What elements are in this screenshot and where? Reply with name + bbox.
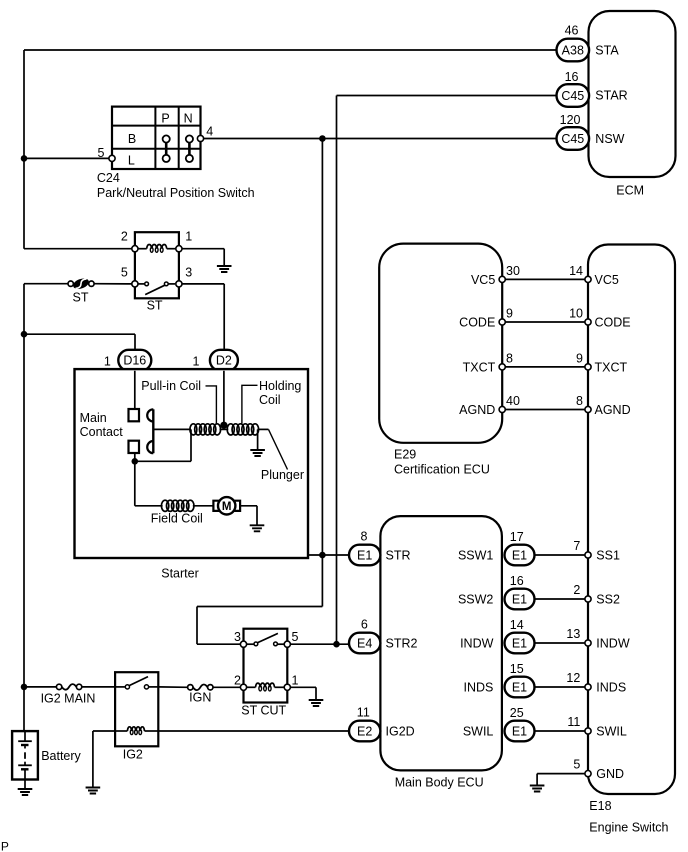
svg-text:D2: D2 xyxy=(216,354,232,368)
svg-text:AGND: AGND xyxy=(459,403,495,417)
label Park/Neutral Position Switch xyxy=(97,186,255,200)
pin 8 AGND (engine switch side) xyxy=(576,394,631,417)
pin 1 of ST relay xyxy=(176,229,193,251)
ground after holding coil xyxy=(250,429,265,456)
pin 4 of C24 xyxy=(197,125,213,142)
relay ST CUT box xyxy=(241,629,287,718)
svg-text:L: L xyxy=(128,154,135,168)
wire ST relay pin 1 to ground xyxy=(182,248,224,250)
wire STA net (battery bus to ECM A38) xyxy=(24,49,557,51)
relay IG2 box xyxy=(115,672,158,762)
svg-text:E1: E1 xyxy=(357,548,372,562)
svg-text:Engine Switch: Engine Switch xyxy=(589,820,668,834)
pin 7 SS1 (engine switch side) xyxy=(573,539,620,563)
svg-text:1: 1 xyxy=(185,229,192,243)
svg-text:NSW: NSW xyxy=(595,132,624,146)
svg-text:16: 16 xyxy=(510,574,524,588)
svg-text:Field Coil: Field Coil xyxy=(151,512,203,526)
plunger leader line xyxy=(269,429,288,469)
wire STAR branch vertical (STAR to STR2) xyxy=(336,96,338,645)
svg-text:A38: A38 xyxy=(562,43,584,57)
junction bus / IG2 MAIN row xyxy=(21,684,28,691)
pin 6 E4 STR2 (main body ECU) xyxy=(349,618,418,654)
pin 16 E1 SSW2 (main body ECU side) xyxy=(458,574,535,609)
main body ECU box xyxy=(380,516,502,790)
svg-text:E18: E18 xyxy=(589,799,611,813)
connector D16 pin 1 xyxy=(104,350,151,371)
svg-text:2: 2 xyxy=(573,583,580,597)
label Main Contact xyxy=(80,411,124,439)
svg-text:11: 11 xyxy=(357,706,370,720)
svg-text:STR2: STR2 xyxy=(386,636,418,650)
wire D16 into starter to main contact xyxy=(134,371,136,409)
relay ST CUT coil (pins 2-1) xyxy=(247,683,285,691)
svg-text:ST: ST xyxy=(73,290,89,304)
svg-text:9: 9 xyxy=(576,351,583,365)
wire bus to IG2 MAIN fuse xyxy=(24,686,56,688)
svg-text:120: 120 xyxy=(560,113,581,127)
pin C45 NSW (ECM) xyxy=(557,113,625,150)
svg-text:11: 11 xyxy=(567,715,580,729)
svg-text:INDW: INDW xyxy=(596,636,630,650)
svg-text:5: 5 xyxy=(573,758,580,772)
wire to field coil xyxy=(135,461,163,506)
svg-text:3: 3 xyxy=(185,266,192,280)
page letter P xyxy=(1,840,9,852)
pin 5 GND (engine switch) xyxy=(573,758,624,782)
pin 5 of ST CUT xyxy=(284,630,298,647)
svg-text:Starter: Starter xyxy=(161,566,199,580)
wire bus to ST relay pin 2 xyxy=(24,248,132,250)
pin 9 CODE (E29 side) xyxy=(459,306,513,329)
svg-text:ST CUT: ST CUT xyxy=(241,703,286,717)
svg-text:Pull-in Coil: Pull-in Coil xyxy=(141,379,201,393)
svg-text:ECM: ECM xyxy=(616,183,644,197)
svg-text:2: 2 xyxy=(121,229,128,243)
pin 3 of ST CUT xyxy=(234,630,247,647)
motor M starter xyxy=(213,497,240,514)
pin 11 SWIL (engine switch side) xyxy=(567,715,627,739)
svg-text:SWIL: SWIL xyxy=(596,724,627,738)
field coil xyxy=(151,500,203,525)
fuse ST (fusible link) xyxy=(68,276,94,304)
wire INDW to INDW (main body ECU to engine switch) xyxy=(535,642,586,644)
wire IGN fuse to ST CUT pin 2 xyxy=(213,686,240,688)
svg-text:14: 14 xyxy=(510,618,524,632)
wire ST relay pin 3 to D2 xyxy=(182,284,224,350)
pin 10 CODE (engine switch side) xyxy=(569,306,631,329)
svg-text:Coil: Coil xyxy=(259,393,281,407)
wire IG2 coil to ground xyxy=(93,730,115,732)
pin 14 E1 INDW (main body ECU side) xyxy=(460,618,534,653)
junction bus to D16 branch xyxy=(21,331,28,338)
wire NSW net horizontal xyxy=(203,138,557,140)
pin 15 E1 INDS (main body ECU side) xyxy=(464,662,535,697)
svg-text:5: 5 xyxy=(121,266,128,280)
wire pin5 to battery bus xyxy=(24,157,109,159)
svg-text:6: 6 xyxy=(361,618,368,632)
wire STR branch to ST CUT pin 3 xyxy=(197,607,322,645)
svg-text:Holding: Holding xyxy=(259,379,301,393)
svg-text:P: P xyxy=(161,111,169,125)
svg-text:STAR: STAR xyxy=(595,89,627,103)
svg-text:40: 40 xyxy=(506,394,520,408)
svg-text:VC5: VC5 xyxy=(471,273,495,287)
pin 40 AGND (E29 side) xyxy=(459,394,520,417)
wire TXCT net (E29 to engine switch) xyxy=(502,366,588,368)
pin A38 STA (ECM) xyxy=(557,24,620,62)
ground at ST relay pin 1 xyxy=(217,249,232,272)
wire D2 into starter to coil junction xyxy=(223,371,225,426)
svg-text:E1: E1 xyxy=(512,724,527,738)
pin C45 STAR (ECM) xyxy=(557,70,628,107)
svg-text:SSW2: SSW2 xyxy=(458,592,493,606)
wire CODE net (E29 to engine switch) xyxy=(502,321,588,323)
wire main contact to pull-in coil xyxy=(153,428,191,430)
wire VC5 net (E29 to engine switch) xyxy=(502,278,588,280)
svg-text:8: 8 xyxy=(576,394,583,408)
svg-text:46: 46 xyxy=(565,24,579,38)
svg-text:D16: D16 xyxy=(123,354,146,368)
wire starter to E1 STR xyxy=(308,554,349,556)
ground at ST CUT pin 1 xyxy=(309,687,324,706)
wire ST fuse to ST relay pin 5 xyxy=(94,283,132,285)
svg-text:9: 9 xyxy=(506,306,513,320)
pin 2 SS2 (engine switch side) xyxy=(573,583,620,607)
svg-text:M: M xyxy=(222,501,232,513)
svg-text:TXCT: TXCT xyxy=(595,360,628,374)
junction NSW wire / STR branch xyxy=(319,135,326,142)
wire IG2D net (IG2 coil to E2) xyxy=(158,730,349,732)
wire motor to ground xyxy=(240,505,257,507)
svg-text:4: 4 xyxy=(206,125,213,139)
pin 5 of C24 xyxy=(98,146,116,161)
svg-text:ST: ST xyxy=(147,299,163,313)
wire SSW2 to SS2 (main body ECU to engine switch) xyxy=(535,598,586,600)
svg-text:Contact: Contact xyxy=(80,425,124,439)
svg-text:C24: C24 xyxy=(97,171,120,185)
svg-text:8: 8 xyxy=(506,351,513,365)
wire STR branch vertical (NSW to STR to ST CUT) xyxy=(321,139,323,607)
main contact moving plate xyxy=(147,409,153,453)
pin 11 E2 IG2D (main body ECU) xyxy=(349,706,415,742)
relay IG2 coil xyxy=(115,727,158,735)
svg-text:12: 12 xyxy=(566,671,580,685)
relay ST switch contact (pins 5-3) xyxy=(138,282,175,295)
certification ECU E29 box xyxy=(379,244,502,477)
svg-text:STA: STA xyxy=(595,43,619,57)
pin 2 of ST relay xyxy=(121,229,138,251)
svg-text:CODE: CODE xyxy=(595,315,631,329)
wire battery bus upper segment xyxy=(23,50,25,249)
wire SSW1 to SS1 (main body ECU to engine switch) xyxy=(535,554,586,556)
junction lower contact / field coil xyxy=(132,458,139,465)
svg-text:IG2: IG2 xyxy=(123,748,143,762)
connector D2 pin 1 xyxy=(193,350,238,371)
wire SWIL to SWIL (main body ECU to engine switch) xyxy=(535,730,586,732)
ground at IG2 coil xyxy=(86,731,101,794)
svg-text:30: 30 xyxy=(506,264,520,278)
svg-text:Battery: Battery xyxy=(41,749,81,763)
svg-text:IG2D: IG2D xyxy=(386,724,415,738)
pin 14 VC5 (engine switch side) xyxy=(569,264,619,287)
label Holding Coil with leader xyxy=(242,379,302,424)
svg-text:P: P xyxy=(1,840,9,852)
svg-text:Main Body ECU: Main Body ECU xyxy=(395,776,484,790)
main contact lower fixed contact xyxy=(129,441,140,453)
junction battery bus / pin5 wire xyxy=(21,155,28,162)
pin 8 E1 STR (main body ECU) xyxy=(349,530,411,566)
svg-text:3: 3 xyxy=(234,630,241,644)
park/neutral position switch C24 body xyxy=(112,107,201,169)
wire ST CUT pin 1 to ground xyxy=(290,686,316,688)
pin 3 of ST relay xyxy=(176,266,193,287)
wire lower contact to coil junction xyxy=(135,429,191,461)
pin 1 of ST CUT xyxy=(284,673,298,690)
wire holding coil tail xyxy=(258,428,269,430)
switch contacts column P xyxy=(163,135,170,162)
ECM box xyxy=(589,11,676,197)
svg-text:17: 17 xyxy=(510,530,524,544)
svg-text:14: 14 xyxy=(569,264,583,278)
svg-text:Certification ECU: Certification ECU xyxy=(394,463,490,477)
pin 9 TXCT (engine switch side) xyxy=(576,351,627,374)
pin 8 TXCT (E29 side) xyxy=(463,351,513,374)
svg-text:10: 10 xyxy=(569,306,583,320)
svg-text:C45: C45 xyxy=(561,132,584,146)
relay ST box xyxy=(135,232,179,313)
svg-text:1: 1 xyxy=(193,354,200,368)
svg-text:SS2: SS2 xyxy=(596,592,620,606)
wire bus to ST fuse xyxy=(24,283,68,285)
svg-text:INDS: INDS xyxy=(464,680,494,694)
wire D16 branch vertical xyxy=(134,334,136,350)
svg-text:Plunger: Plunger xyxy=(261,468,304,482)
starter box xyxy=(75,369,309,580)
holding coil xyxy=(227,424,258,435)
wire D16 branch horizontal xyxy=(24,333,135,335)
fuse IG2 MAIN xyxy=(41,684,96,705)
wire ST CUT pin 5 to E4 STR2 xyxy=(290,643,349,645)
ground at engine switch GND xyxy=(530,774,545,792)
svg-text:E1: E1 xyxy=(512,592,527,606)
svg-text:STR: STR xyxy=(386,548,411,562)
svg-text:IG2 MAIN: IG2 MAIN xyxy=(41,691,96,705)
svg-text:N: N xyxy=(184,111,193,125)
wire IG2 MAIN fuse to IG2 relay xyxy=(82,686,115,688)
junction pull-in / holding coil / D2 xyxy=(220,422,229,430)
wire battery bus lower segment xyxy=(23,284,25,731)
wire IG2 relay to IGN fuse xyxy=(158,686,187,688)
svg-text:13: 13 xyxy=(566,627,580,641)
svg-text:GND: GND xyxy=(596,767,624,781)
battery xyxy=(12,731,81,779)
svg-text:7: 7 xyxy=(573,539,580,553)
svg-text:1: 1 xyxy=(104,354,111,368)
wire INDS to INDS (main body ECU to engine switch) xyxy=(535,686,586,688)
relay IG2 switch contact xyxy=(115,677,158,689)
pin 30 VC5 (E29 side) xyxy=(471,264,520,287)
svg-text:C45: C45 xyxy=(561,89,584,103)
svg-text:25: 25 xyxy=(510,706,524,720)
svg-text:E1: E1 xyxy=(512,548,527,562)
wire field coil to motor xyxy=(193,505,214,507)
label Pull-in Coil with leader xyxy=(141,379,216,424)
fuse IGN xyxy=(188,685,213,705)
svg-text:SWIL: SWIL xyxy=(463,724,494,738)
svg-text:IGN: IGN xyxy=(189,690,211,704)
pin 12 INDS (engine switch side) xyxy=(566,671,626,695)
svg-text:E2: E2 xyxy=(357,724,372,738)
svg-text:CODE: CODE xyxy=(459,315,495,329)
svg-text:B: B xyxy=(128,132,136,146)
svg-text:15: 15 xyxy=(510,662,524,676)
svg-text:8: 8 xyxy=(361,530,368,544)
svg-text:2: 2 xyxy=(234,673,241,687)
svg-text:E29: E29 xyxy=(394,448,416,462)
pin 2 of ST CUT xyxy=(234,673,247,690)
svg-text:Main: Main xyxy=(80,411,107,425)
pin 5 of ST relay xyxy=(121,266,138,287)
svg-text:E1: E1 xyxy=(512,680,527,694)
pin 17 E1 SSW1 (main body ECU side) xyxy=(458,530,535,565)
svg-text:SSW1: SSW1 xyxy=(458,548,493,562)
svg-text:E4: E4 xyxy=(357,636,372,650)
relay ST CUT switch contact (pins 3-5) xyxy=(247,633,285,645)
pin 25 E1 SWIL (main body ECU side) xyxy=(463,706,535,741)
relay ST coil (pins 2-1) xyxy=(138,245,176,253)
svg-text:E1: E1 xyxy=(512,636,527,650)
svg-text:Park/Neutral Position Switch: Park/Neutral Position Switch xyxy=(97,186,255,200)
ground after motor xyxy=(250,506,265,532)
main contact upper fixed contact xyxy=(129,409,140,421)
svg-text:VC5: VC5 xyxy=(595,273,619,287)
engine switch E18 box xyxy=(588,245,675,835)
ground under battery xyxy=(18,780,33,796)
junction STR2 wire / STAR branch xyxy=(333,641,340,648)
junction starter output / STR wire xyxy=(319,552,326,559)
label C24 xyxy=(97,171,120,185)
svg-text:16: 16 xyxy=(565,70,579,84)
svg-text:TXCT: TXCT xyxy=(463,360,496,374)
svg-text:SS1: SS1 xyxy=(596,548,620,562)
wire STAR net horizontal xyxy=(337,95,557,97)
label Plunger xyxy=(261,468,304,482)
switch contacts column N xyxy=(186,135,193,162)
svg-text:AGND: AGND xyxy=(595,403,631,417)
svg-text:5: 5 xyxy=(292,630,299,644)
svg-text:1: 1 xyxy=(292,673,299,687)
pull-in coil xyxy=(190,424,221,435)
wire AGND net (E29 to engine switch) xyxy=(502,409,588,411)
svg-text:INDW: INDW xyxy=(460,636,494,650)
svg-text:INDS: INDS xyxy=(596,680,626,694)
pin 13 INDW (engine switch side) xyxy=(566,627,629,651)
wire GND to ground xyxy=(537,773,585,775)
